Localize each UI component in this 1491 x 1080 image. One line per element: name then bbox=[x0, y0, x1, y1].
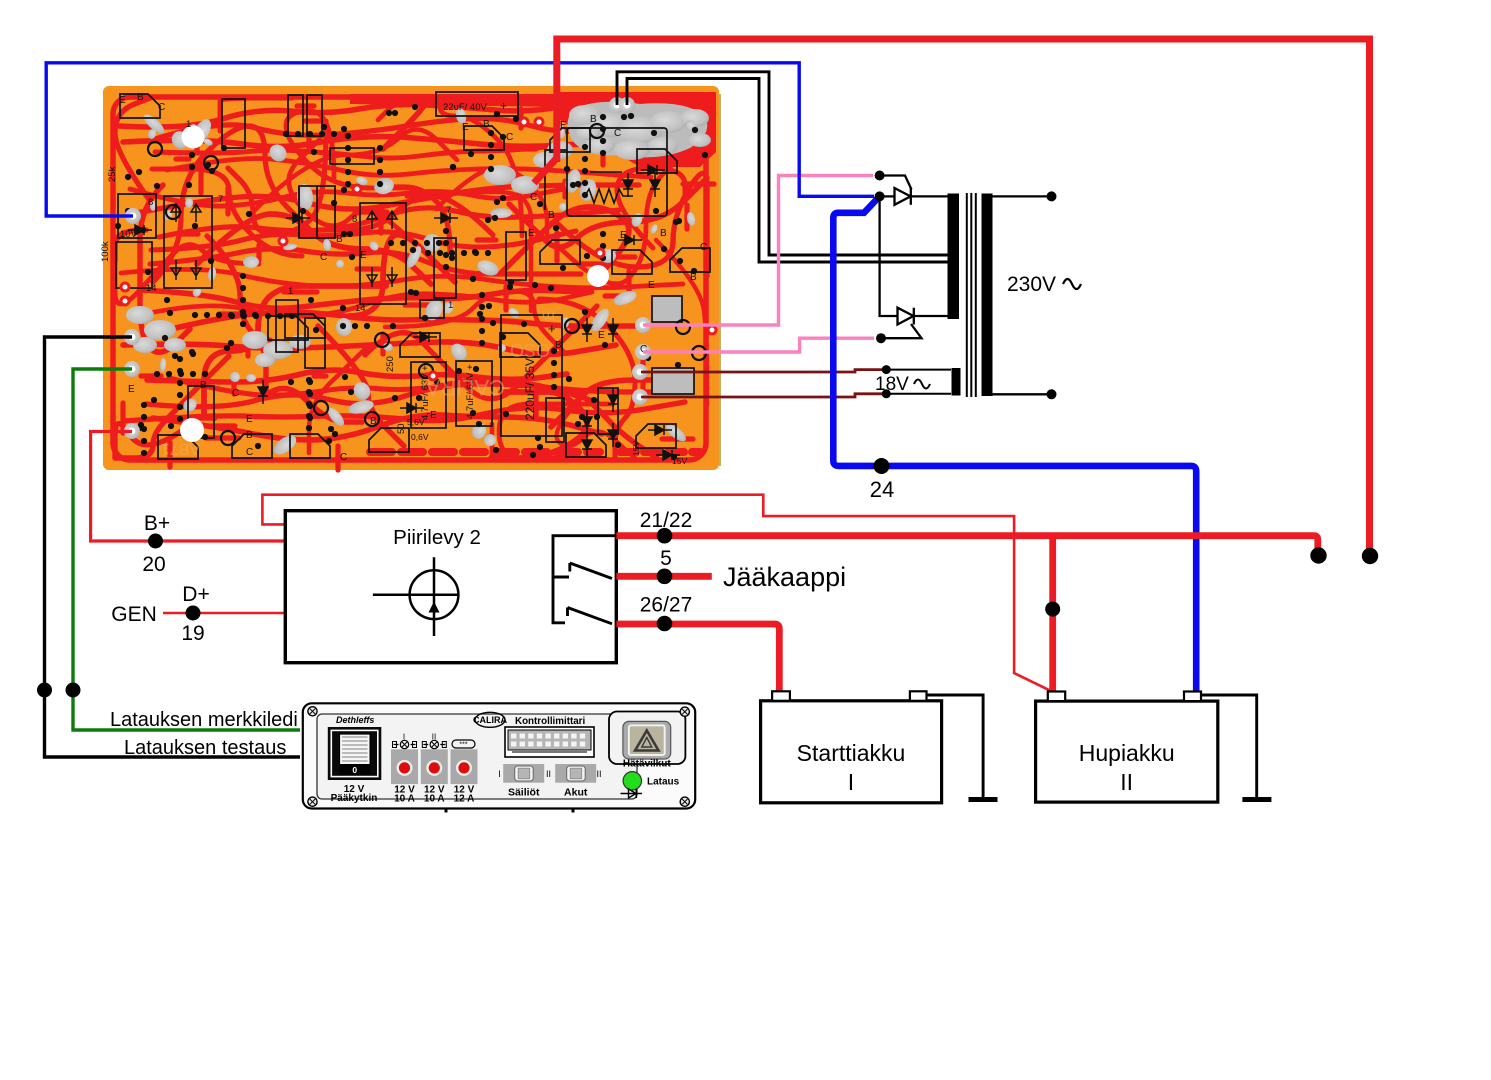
node 24 junction dot on blue wire bbox=[874, 458, 890, 474]
svg-text:Hupiakku: Hupiakku bbox=[1079, 740, 1175, 766]
PCB silkscreen texts bbox=[100, 92, 707, 466]
svg-text:m: m bbox=[542, 307, 555, 324]
svg-text:E: E bbox=[620, 230, 627, 241]
wire black A: PCB to transformer primary tap bbox=[617, 72, 948, 255]
svg-text:C: C bbox=[700, 242, 707, 253]
mounting holes bbox=[182, 126, 205, 149]
box Piirilevy 2 bbox=[285, 511, 616, 663]
meter symbol (circle with arrow) inside Piirilevy 2 bbox=[373, 557, 459, 636]
svg-text:E: E bbox=[119, 95, 126, 106]
svg-text:24: 24 bbox=[870, 477, 894, 502]
svg-text:1: 1 bbox=[448, 300, 453, 311]
PCB copper traces bbox=[115, 98, 714, 470]
svg-text:II: II bbox=[1120, 769, 1133, 795]
Hatavilkut hazard button bbox=[623, 721, 671, 759]
svg-text:C: C bbox=[232, 388, 239, 399]
svg-text:AB71: AB71 bbox=[161, 440, 200, 457]
svg-text:1: 1 bbox=[186, 119, 191, 130]
svg-text:B: B bbox=[336, 234, 343, 245]
node junction dot on green wire bbox=[66, 683, 81, 698]
svg-text:C: C bbox=[158, 102, 165, 113]
svg-text:15V: 15V bbox=[631, 441, 641, 456]
svg-text:220uF/ 35V: 220uF/ 35V bbox=[523, 358, 537, 420]
wire maroon lower: PCB to 18V winding bbox=[641, 394, 886, 397]
svg-text:CALIRA: CALIRA bbox=[425, 375, 505, 400]
svg-text:I: I bbox=[848, 769, 854, 795]
svg-text:B: B bbox=[690, 272, 697, 283]
svg-text:100k: 100k bbox=[100, 241, 111, 262]
transformer core lines bbox=[967, 193, 976, 397]
wire red thick 5 output to Jaakaappi bbox=[616, 573, 711, 580]
svg-text:15V: 15V bbox=[672, 456, 687, 466]
sine symbol for 230V bbox=[1063, 279, 1081, 289]
svg-text:I: I bbox=[498, 769, 501, 779]
svg-text:C: C bbox=[506, 132, 513, 143]
svg-text:E: E bbox=[430, 410, 437, 421]
svg-text:250: 250 bbox=[385, 356, 396, 372]
svg-text:Jääkaappi: Jääkaappi bbox=[723, 562, 846, 592]
switch Sailiot bbox=[503, 764, 544, 783]
sine symbol for 18V bbox=[914, 380, 930, 389]
wire red thick 21/22 output bbox=[616, 536, 1317, 550]
svg-text:E: E bbox=[598, 330, 605, 341]
svg-text:18V: 18V bbox=[875, 374, 909, 395]
ground bar Starttiakku bbox=[969, 797, 998, 802]
svg-text:8: 8 bbox=[352, 214, 357, 225]
svg-text:Hätävilkut: Hätävilkut bbox=[623, 759, 671, 770]
battery terminal + bbox=[1048, 692, 1065, 702]
svg-text:0: 0 bbox=[352, 765, 357, 775]
svg-text:10 A: 10 A bbox=[394, 794, 415, 805]
node secondary bottom dot bbox=[1047, 389, 1057, 399]
svg-text:B: B bbox=[137, 92, 144, 103]
wire pink 1: PCB to SCR1 gate bbox=[643, 176, 873, 326]
PCB copper pour region bbox=[560, 92, 716, 167]
svg-text:E: E bbox=[560, 120, 567, 131]
thyristor SCR1 (upper) bbox=[880, 176, 948, 205]
LED bar display bbox=[505, 727, 594, 757]
LED diode symbol bbox=[621, 793, 643, 795]
node: red wire end dot right bbox=[1362, 548, 1378, 564]
svg-text:10 A: 10 A bbox=[424, 794, 445, 805]
wire black B: PCB to transformer primary tap bbox=[627, 79, 948, 263]
node dot 21/22 bbox=[657, 528, 673, 544]
ground bar Hupiakku bbox=[1242, 797, 1271, 802]
wire red thick: B+ feed from PCB top across to right side bbox=[557, 39, 1370, 550]
relay contact bracket inside Piirilevy 2 bbox=[553, 536, 616, 623]
svg-text:B: B bbox=[590, 114, 597, 125]
Lataus charge LED bbox=[623, 772, 641, 790]
svg-text:Kontrollimittari: Kontrollimittari bbox=[515, 716, 585, 727]
svg-text:E: E bbox=[462, 122, 469, 133]
svg-text:14: 14 bbox=[355, 303, 366, 314]
svg-text:0,6V: 0,6V bbox=[411, 432, 429, 442]
svg-text:C: C bbox=[340, 452, 347, 463]
PCB circuit board Piirilevy 1 (photo) bbox=[100, 86, 721, 470]
transformer T1 primary winding bar bbox=[948, 194, 960, 320]
svg-text:25k: 25k bbox=[107, 166, 118, 182]
svg-text:5: 5 bbox=[660, 547, 672, 570]
node secondary top dot bbox=[1047, 191, 1057, 201]
switch contact upper (to Jaakaappi) bbox=[553, 563, 612, 579]
svg-text:E: E bbox=[648, 280, 655, 291]
svg-text:Latauksen merkkiledi: Latauksen merkkiledi bbox=[110, 709, 298, 731]
svg-text:B+: B+ bbox=[144, 512, 170, 535]
svg-text:B: B bbox=[548, 210, 555, 221]
wire secondary terminal top bbox=[992, 195, 1047, 197]
svg-text:21/22: 21/22 bbox=[640, 509, 693, 532]
svg-text:OSO: OSO bbox=[510, 340, 550, 360]
wire red thin: PCB down to B+ terminal 20 of Piirilevy 2 bbox=[91, 432, 285, 542]
wire ground Starttiakku bbox=[927, 695, 984, 797]
svg-text:12 A: 12 A bbox=[454, 794, 475, 805]
battery terminal - bbox=[910, 691, 927, 701]
svg-text:8: 8 bbox=[148, 197, 153, 208]
wire green: Latauksen merkkiledi from PCB down to panel bbox=[73, 369, 300, 730]
node dot 26/27 bbox=[657, 616, 673, 632]
wire red thick 26/27 output to Starttiakku bbox=[616, 624, 779, 692]
svg-text:E: E bbox=[246, 414, 253, 425]
battery Starttiakku I box bbox=[761, 701, 942, 803]
svg-text:***: *** bbox=[459, 742, 467, 749]
wire red thick: stub into PCB solder blob bbox=[534, 158, 557, 183]
svg-text:C: C bbox=[614, 128, 621, 139]
18V winding outline bottom bbox=[886, 393, 951, 395]
svg-text:II: II bbox=[596, 769, 601, 779]
svg-text:B: B bbox=[246, 430, 253, 441]
wire maroon upper: PCB to 18V winding bbox=[641, 370, 886, 372]
svg-text:Säiliöt: Säiliöt bbox=[508, 787, 540, 799]
thyristor SCR2 (lower) bbox=[884, 308, 948, 339]
wire pink 2: PCB to SCR2 gate bbox=[643, 338, 874, 352]
svg-text:B: B bbox=[555, 340, 562, 351]
svg-text:7: 7 bbox=[446, 205, 451, 216]
svg-text:Lataus: Lataus bbox=[647, 777, 680, 788]
svg-text:C: C bbox=[246, 447, 253, 458]
wire red thin: Piirilevy 2 to Hupiakku positive bbox=[262, 495, 1049, 691]
battery Hupiakku II box bbox=[1036, 701, 1218, 802]
svg-text:22uF/ 40V: 22uF/ 40V bbox=[443, 102, 487, 113]
svg-text:+: + bbox=[500, 99, 507, 113]
svg-text:50: 50 bbox=[396, 423, 407, 434]
svg-text:Latauksen testaus: Latauksen testaus bbox=[124, 737, 286, 759]
svg-text:26/27: 26/27 bbox=[640, 594, 693, 617]
transformer secondary winding bar bbox=[982, 194, 993, 397]
node junction dot on black wire bbox=[37, 683, 52, 698]
node dot on branch bbox=[1045, 602, 1060, 617]
svg-text:B: B bbox=[200, 380, 207, 391]
svg-text:E: E bbox=[360, 250, 367, 261]
fuse modules bbox=[391, 749, 418, 784]
node 18V top dot bbox=[882, 365, 891, 374]
PCB solder pads bbox=[115, 104, 708, 460]
main switch 12V Paakytkin bbox=[328, 727, 382, 780]
node SCR2 gate dot bbox=[876, 333, 886, 343]
wire blue thin: PCB 10V pad to SCR anode node bbox=[46, 63, 874, 216]
svg-text:II: II bbox=[546, 769, 551, 779]
svg-text:1: 1 bbox=[288, 286, 293, 297]
PCB diodes bbox=[128, 165, 680, 460]
node dot on 21/22 at end bbox=[1310, 547, 1326, 563]
PCB transistors bbox=[120, 94, 710, 459]
node D+ 19 dot bbox=[186, 606, 201, 621]
svg-text:14: 14 bbox=[146, 283, 157, 294]
svg-text:C: C bbox=[320, 252, 327, 263]
svg-text:B: B bbox=[660, 228, 667, 239]
wire red thin: GEN D+ line into Piirilevy 2 terminal 19 bbox=[163, 612, 285, 615]
solder blobs bbox=[126, 102, 711, 459]
battery terminal - bbox=[1184, 692, 1201, 702]
svg-text:7: 7 bbox=[218, 194, 223, 205]
battery terminal + bbox=[772, 691, 790, 701]
PCB border trace bbox=[113, 97, 706, 460]
18V winding outline top bbox=[886, 369, 951, 371]
svg-text:Dethleffs: Dethleffs bbox=[336, 715, 374, 725]
node SCR1 anode dot bbox=[875, 191, 885, 201]
svg-text:19: 19 bbox=[181, 622, 204, 645]
svg-text:10V: 10V bbox=[120, 229, 138, 240]
svg-text:Akut: Akut bbox=[564, 787, 588, 799]
node B+ 20 dot bbox=[148, 534, 163, 549]
node 18V bottom dot bbox=[882, 389, 891, 398]
svg-text:E: E bbox=[128, 384, 135, 395]
wire red thick branch down to Hupiakku positive bbox=[1049, 537, 1056, 691]
svg-text:D+: D+ bbox=[182, 583, 209, 606]
svg-text:C: C bbox=[530, 192, 537, 203]
control panel Dethleffs/Calira Kontrollimittari bbox=[303, 703, 695, 812]
wire anode bus down to SCR2 bbox=[880, 196, 897, 316]
svg-text:B: B bbox=[483, 119, 490, 130]
svg-text:Starttiakku: Starttiakku bbox=[797, 740, 906, 766]
wire secondary terminal bottom bbox=[992, 393, 1047, 395]
svg-text:E: E bbox=[528, 228, 535, 239]
transformer 18V winding bar bbox=[952, 368, 961, 396]
node SCR1 gate dot bbox=[875, 171, 885, 181]
wire blue thick: SCR anode node down to Hupiakku battery bbox=[833, 199, 1196, 692]
node dot 5 bbox=[657, 569, 673, 585]
PCB component outlines bbox=[116, 92, 694, 442]
svg-text:CALIRA: CALIRA bbox=[473, 715, 507, 725]
svg-text:20: 20 bbox=[142, 553, 165, 576]
switch contact lower (to 26/27) bbox=[568, 608, 613, 624]
wire ground Hupiakku bbox=[1201, 695, 1257, 797]
svg-text:B: B bbox=[370, 416, 377, 427]
svg-text:Pääkytkin: Pääkytkin bbox=[331, 793, 378, 804]
svg-text:230V: 230V bbox=[1007, 273, 1056, 296]
svg-text:Piirilevy 2: Piirilevy 2 bbox=[393, 526, 481, 549]
svg-text:GEN: GEN bbox=[111, 603, 157, 626]
wire black: Latauksen testaus from PCB down to panel bbox=[45, 337, 301, 757]
